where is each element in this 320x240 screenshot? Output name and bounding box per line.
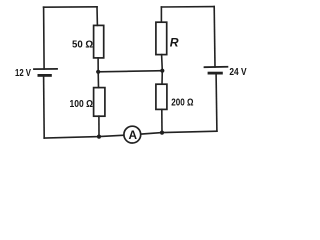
junction node left mid: [96, 70, 100, 74]
wire stub R bottom to mid node: [161, 55, 164, 71]
svg-text:200 Ω: 200 Ω: [171, 97, 193, 108]
resistor 200 ohm box: [156, 84, 167, 109]
junction node below 200 ohm: [160, 131, 164, 135]
battery B1 12V long plate: [34, 68, 57, 70]
battery B2 24V long plate: [205, 66, 228, 68]
wire stub 100 ohm bottom to bottom wire: [98, 116, 100, 136]
wire left rail upper: [43, 7, 46, 69]
svg-text:12 V: 12 V: [15, 68, 31, 79]
svg-text:24 V: 24 V: [229, 67, 246, 78]
wire stub mid node to 100 ohm top: [97, 72, 99, 88]
junction node right mid: [160, 69, 164, 73]
svg-text:50 Ω: 50 Ω: [72, 40, 93, 51]
wire right rail upper: [213, 7, 216, 67]
ammeter A1: [124, 126, 141, 143]
wire bottom right segment: [141, 131, 217, 134]
wire stub 50 ohm bottom to mid node: [97, 58, 99, 72]
wire right rail lower: [215, 75, 218, 132]
wire top-left loop: [44, 6, 97, 8]
svg-text:A: A: [129, 128, 138, 142]
junction node below 100 ohm: [97, 135, 101, 139]
battery B2 24V short plate: [209, 72, 221, 75]
wire middle horizontal: [98, 71, 162, 72]
battery B1 12V short plate: [39, 74, 51, 77]
wire stub to 50 ohm top: [96, 7, 98, 26]
svg-text:R: R: [170, 36, 179, 50]
wire bottom left segment: [44, 135, 124, 138]
wire stub mid node to 200 ohm top: [161, 71, 163, 85]
svg-text:100 Ω: 100 Ω: [70, 99, 93, 110]
resistor 100 ohm box: [94, 88, 105, 117]
wire left rail lower: [43, 76, 46, 138]
resistor R: [156, 22, 167, 54]
wire top-right loop: [161, 6, 214, 8]
wire stub to R top: [160, 7, 162, 22]
wire stub 200 ohm bottom to bottom wire: [161, 109, 163, 132]
resistor 50 ohm box: [94, 25, 104, 58]
